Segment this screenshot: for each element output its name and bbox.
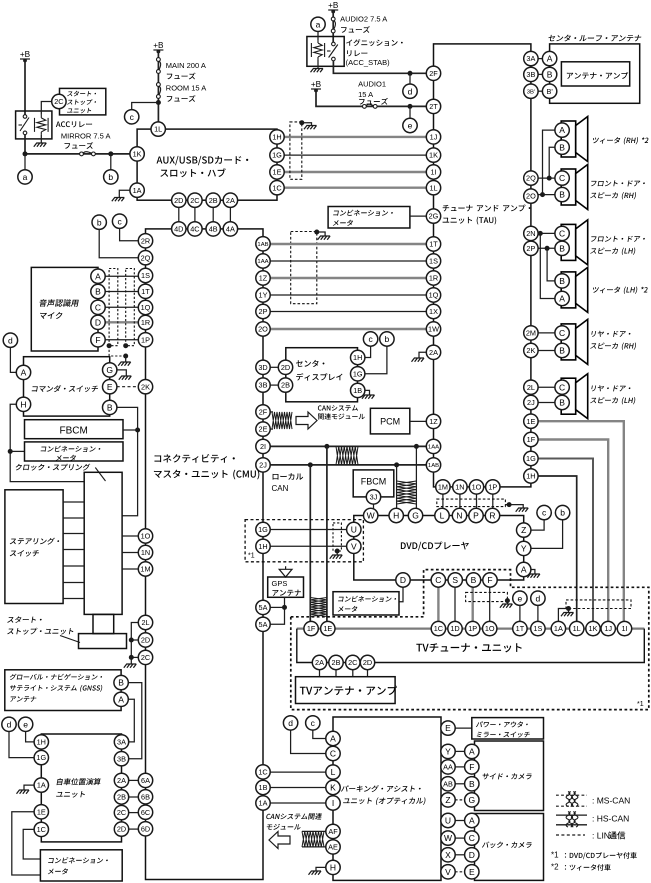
DVD pin Y <box>517 541 531 555</box>
speaker tweeter RH <box>561 117 588 162</box>
ignition relay coil <box>311 40 324 60</box>
svg-text:b: b <box>108 172 113 182</box>
svg-text:G: G <box>468 795 475 805</box>
wire hub 2A to CMU 4A <box>229 207 231 222</box>
svg-text:1R: 1R <box>429 274 438 283</box>
wire nav 2D-6D <box>129 828 139 830</box>
TAU pin 2K <box>524 343 538 357</box>
svg-text:B: B <box>95 287 101 297</box>
wire connector a2 to ignition coil <box>317 32 319 41</box>
ground B/F shield <box>500 604 513 608</box>
wire TV 2B to TV antenna amp <box>335 670 337 677</box>
svg-text:L: L <box>331 767 336 777</box>
wire TAU 2A to ground <box>419 352 427 357</box>
svg-text:Y: Y <box>521 543 527 553</box>
wire connector e2 to TV 1T <box>519 605 521 621</box>
fuse AUDIO1 15A <box>363 104 378 108</box>
svg-text:GPS: GPS <box>272 579 288 588</box>
parking pin I <box>326 796 340 810</box>
junction shield drain (hub wires) <box>299 120 304 125</box>
speaker terminal C <box>555 380 569 394</box>
wire CMU-TAU row 1Y-1Q <box>270 294 427 296</box>
start-stop pointer <box>60 636 80 643</box>
CMU pin 5A <box>256 600 270 614</box>
parking pin AE <box>326 840 340 854</box>
DVD pin N <box>452 508 466 522</box>
TAU pin 2T <box>426 99 440 113</box>
svg-text:2B: 2B <box>332 658 341 667</box>
svg-text:2D: 2D <box>363 658 372 667</box>
svg-text:3B: 3B <box>526 70 535 79</box>
ground DVD shield <box>516 508 529 512</box>
wire connector c5 to parking A <box>313 730 326 739</box>
svg-text:+B: +B <box>153 41 164 50</box>
shield TV right wires <box>566 600 631 609</box>
junction mic shield 1 <box>107 343 112 348</box>
svg-text:1M: 1M <box>140 565 150 574</box>
back camera pin C <box>465 831 479 845</box>
TAU pin 1H <box>524 469 538 483</box>
junction e1 tap <box>408 104 413 109</box>
wire MIRROR fuse run <box>25 153 130 155</box>
connector d (commander) <box>3 333 17 347</box>
TAU pin 1T <box>426 237 440 251</box>
svg-text:FBCM: FBCM <box>361 477 387 487</box>
commander pin E <box>103 380 117 394</box>
wire CMU 1B to parking K <box>270 787 326 789</box>
svg-text:B: B <box>559 346 565 356</box>
svg-text:4C: 4C <box>190 225 199 234</box>
wire connector b2 to CMU 2Q <box>99 229 138 258</box>
junction CAN-L drop to DVD <box>394 462 399 467</box>
hub pin 2B <box>206 193 220 207</box>
CMU pin 1AB <box>256 237 270 251</box>
svg-text:1O: 1O <box>472 483 482 492</box>
wire mic shield drain dashed <box>109 346 126 356</box>
FBCM box (DVD area) <box>353 470 394 497</box>
wire CMU 2F to MS-CAN module <box>270 411 273 413</box>
DVD pin A <box>517 562 531 576</box>
svg-text:2T: 2T <box>429 102 438 111</box>
shield around hub-TAU wires <box>290 122 302 179</box>
wire DVD S to TV 1D <box>454 587 456 622</box>
wire CMU 1A to parking I <box>270 802 326 804</box>
ground commander G <box>119 376 132 380</box>
nav pin 1G <box>34 750 48 764</box>
nav pin 2D <box>114 822 128 836</box>
svg-text:2D: 2D <box>117 825 126 834</box>
wire tweeter LH B <box>547 248 555 281</box>
connector c (display) <box>363 332 377 346</box>
wire TV 2C to TV antenna amp <box>352 670 354 677</box>
svg-text:D: D <box>400 575 406 585</box>
wire hub 1H to TAU 1J <box>284 136 427 138</box>
+B symbol (AUDIO1 feed) <box>311 80 322 93</box>
svg-text:1P: 1P <box>141 335 150 344</box>
wire CAN-H CMU 2I to TAU 1AA <box>270 445 428 447</box>
speaker terminal A <box>555 123 569 137</box>
nav pin 1H <box>34 735 48 749</box>
fuse MIRROR 7.5A <box>80 152 96 156</box>
svg-text:G: G <box>106 365 113 375</box>
FBCM pin 3J <box>366 490 380 504</box>
svg-text:3D: 3D <box>258 363 267 372</box>
svg-text:1G: 1G <box>36 753 46 762</box>
wire B/F shield to ground <box>506 601 508 604</box>
svg-text:A: A <box>469 816 475 826</box>
commander pin H <box>16 397 30 411</box>
combination meter box (bottom left) <box>40 850 122 881</box>
speaker terminal A <box>555 291 569 305</box>
svg-text:1E: 1E <box>323 624 332 633</box>
svg-text:1L: 1L <box>154 125 162 134</box>
svg-text:S: S <box>452 575 458 585</box>
svg-text:3B: 3B <box>259 381 268 390</box>
junction node c tap <box>156 100 161 105</box>
svg-text:F: F <box>469 762 474 772</box>
svg-text:b: b <box>97 217 102 227</box>
parking pin AB <box>441 777 455 791</box>
wire DVD F to TV 1O <box>489 587 491 622</box>
svg-text:5A: 5A <box>259 620 268 629</box>
svg-text:Y: Y <box>445 746 451 756</box>
svg-text:4A: 4A <box>226 225 235 234</box>
connector e (TV) <box>513 591 527 605</box>
parking pin A <box>326 731 340 745</box>
ACC relay coil <box>35 115 49 135</box>
antenna amp box <box>561 62 629 86</box>
wire commander B to clock spring <box>117 407 138 515</box>
svg-text:1M: 1M <box>438 483 448 492</box>
svg-text:1Z: 1Z <box>429 417 438 426</box>
svg-text:B: B <box>559 398 565 408</box>
legend HS-CAN symbol <box>556 815 587 825</box>
svg-text:1G: 1G <box>526 454 536 463</box>
wire TAU 1G to TV 1K <box>538 459 593 622</box>
wire connector e3 to nav 1H <box>26 731 35 742</box>
junction DVD shield drain <box>507 502 512 507</box>
svg-text:6B: 6B <box>141 792 150 801</box>
TAU pin 2P <box>524 241 538 255</box>
option dashed region *1 (TV tuner/DVD) <box>291 570 649 710</box>
nav pin 2C <box>114 805 128 819</box>
wire to combination meter 1 <box>10 450 24 452</box>
svg-text:1L: 1L <box>429 183 437 192</box>
junction +B/a node <box>23 151 28 156</box>
TV pin 1S <box>531 621 545 635</box>
wire shield drain to ground (hub wires) <box>302 123 312 125</box>
ignition relay box (ACC_STAB) <box>307 37 344 67</box>
TAU (tuner and amp unit) box <box>434 44 531 487</box>
svg-text:1A: 1A <box>37 781 46 790</box>
car position unit box <box>41 734 121 842</box>
wire TAU 2N to speaker <box>538 232 555 234</box>
wire DVD Y to connector b3 <box>531 520 563 549</box>
svg-text:E: E <box>445 723 451 733</box>
arrow to CAN system module (left) <box>269 832 290 849</box>
svg-text:1O: 1O <box>141 532 151 541</box>
svg-text:d: d <box>7 719 12 729</box>
TAU pin 1AB <box>426 458 440 472</box>
speaker terminal C <box>555 326 569 340</box>
svg-text:2A: 2A <box>429 348 438 357</box>
svg-text:1E: 1E <box>273 168 282 177</box>
svg-text:c: c <box>542 508 547 518</box>
mic pin A <box>91 269 105 283</box>
TAU pin 2A <box>426 345 440 359</box>
display pin 1B <box>351 383 365 397</box>
wire nav 1A to ground <box>24 785 34 789</box>
wire display 1H to connector c4 <box>365 346 371 358</box>
svg-text:c: c <box>368 334 373 344</box>
svg-text:3B: 3B <box>117 754 126 763</box>
connector c (DVD) <box>537 505 551 519</box>
svg-text:C: C <box>469 833 475 843</box>
wire DVD D to combi meter <box>399 587 403 602</box>
svg-text:d: d <box>408 86 413 96</box>
svg-text:4B: 4B <box>209 225 218 234</box>
commander pin G <box>103 363 117 377</box>
wire parking H to ground <box>316 867 326 870</box>
svg-text:1T: 1T <box>429 240 438 249</box>
commander switch box <box>24 357 110 416</box>
parking pin V <box>441 865 455 879</box>
svg-text:2C: 2C <box>348 658 357 667</box>
mic pin D <box>91 315 105 329</box>
wire commander G to ground <box>117 370 127 376</box>
svg-text:B: B <box>107 402 113 412</box>
svg-text:AA: AA <box>443 763 453 772</box>
wire steering rung 5 <box>63 565 84 567</box>
svg-text:2C: 2C <box>117 808 126 817</box>
parking pin W <box>441 831 455 845</box>
back camera pin A <box>465 813 479 827</box>
wire CAN drop to DVD G <box>415 446 417 508</box>
CMU pin 2D <box>138 633 152 647</box>
junction GPS 5A <box>282 605 287 610</box>
CMU pin 1C <box>256 765 270 779</box>
connector c (mid) <box>112 214 126 228</box>
svg-text:C: C <box>95 302 101 312</box>
svg-text:1A: 1A <box>133 186 142 195</box>
parking pin Z <box>441 793 455 807</box>
CMU pin 3D <box>256 360 270 374</box>
CMU pin 1G <box>256 522 270 536</box>
wire DVD L-1M <box>442 494 444 509</box>
wire CMU 2C to rail <box>131 656 138 658</box>
wire connector c2 to CMU 2R <box>120 228 139 241</box>
svg-text:2J: 2J <box>527 398 535 407</box>
svg-text:2A: 2A <box>226 196 235 205</box>
connector e (top) <box>403 118 417 132</box>
svg-text:1H: 1H <box>353 353 362 362</box>
junction B/F shield drain <box>505 598 510 603</box>
parking pin X <box>441 848 455 862</box>
svg-text:1K: 1K <box>133 150 142 159</box>
svg-text:R: R <box>489 511 495 521</box>
wire TAU 2L to speaker <box>538 386 555 388</box>
connector d (TV) <box>531 591 545 605</box>
svg-text:: MS-CAN: : MS-CAN <box>592 796 630 806</box>
wire CAN drop to DVD H <box>396 465 398 509</box>
side camera pin B <box>465 777 479 791</box>
wire CMU-TAU row 2P-1X <box>270 311 427 313</box>
DVD pin G <box>408 508 422 522</box>
wire hub 1E to TAU 1I <box>284 171 427 173</box>
TAU pin 1F <box>524 432 538 446</box>
shield DVD B/F wires <box>466 592 508 601</box>
svg-text:1L: 1L <box>573 624 581 633</box>
svg-text:1Y: 1Y <box>259 291 268 300</box>
svg-text:1E: 1E <box>37 807 46 816</box>
MS-CAN twisted pair (CMU 2F/2E) <box>272 412 292 429</box>
svg-text:2K: 2K <box>526 346 535 355</box>
svg-text:A: A <box>547 54 553 64</box>
ground shield (CMU-TAU rows) <box>318 236 331 240</box>
svg-text:B: B <box>559 142 565 152</box>
svg-text:B: B <box>469 779 475 789</box>
TV pin 1I <box>617 621 631 635</box>
clock spring pointer <box>95 468 105 482</box>
nav pin 1C <box>34 822 48 836</box>
nav pin 2A <box>114 773 128 787</box>
parking pin U <box>441 813 455 827</box>
center display box <box>286 348 358 402</box>
svg-text:1C: 1C <box>258 768 267 777</box>
wire ACC switch to MIRROR fuse node <box>24 135 26 154</box>
svg-text:U: U <box>351 525 357 535</box>
svg-text:1H: 1H <box>258 542 267 551</box>
svg-text:1O: 1O <box>485 624 495 633</box>
wire nav 2C-6C <box>129 812 139 814</box>
svg-text:2N: 2N <box>526 229 535 238</box>
wire MAIN/ROOM fuse column <box>157 51 159 122</box>
wire ignition coil to ground <box>317 60 319 68</box>
CMU pin 4D <box>172 222 186 236</box>
CMU pin 2E <box>256 422 270 436</box>
start-stop unit box (top) <box>60 88 106 115</box>
back camera pin E <box>465 865 479 879</box>
TAU pin 1M <box>436 480 450 494</box>
wire CMU 3B to display 2B <box>270 384 279 386</box>
svg-text:1AA: 1AA <box>428 445 439 451</box>
wire parking AF to CAN module <box>302 830 326 832</box>
connector c (parking) <box>306 716 320 730</box>
ignition relay switch <box>327 42 338 61</box>
svg-text:*1: *1 <box>637 701 644 708</box>
TV tuner unit box top edge <box>297 627 645 629</box>
wire CAN drop to TV 1E <box>326 446 328 621</box>
CMU pin 6C <box>138 805 152 819</box>
steering switch box <box>5 490 63 604</box>
TAU pin 2G <box>426 209 440 223</box>
nav pin 1A <box>34 778 48 792</box>
svg-text:c: c <box>117 216 122 226</box>
svg-text:2O: 2O <box>258 325 268 334</box>
svg-text:C: C <box>559 328 565 338</box>
wire DVD A to ground <box>531 570 535 574</box>
wire hub 2D to CMU 4D <box>178 207 180 222</box>
junction tweeter RH A tap <box>540 192 545 197</box>
parking pin Y <box>441 744 455 758</box>
svg-text:X: X <box>445 850 451 860</box>
CMU pin 2P <box>256 304 270 318</box>
svg-text:I: I <box>332 798 334 808</box>
wire mic B-1T <box>105 291 139 293</box>
parking pin E <box>441 721 455 735</box>
wire connector d3 to TV 1S <box>537 605 539 621</box>
svg-text:*1: *1 <box>551 851 559 860</box>
TAU pin 1N <box>453 480 467 494</box>
svg-text:5A: 5A <box>259 603 268 612</box>
wire PCM to TAU 1Z <box>410 420 427 422</box>
parking pin C <box>326 746 340 760</box>
CMU pin 1A <box>256 796 270 810</box>
wire U/V shield to ground <box>336 551 338 555</box>
svg-text:AF: AF <box>328 827 338 836</box>
CMU pin 1R <box>138 315 152 329</box>
wire parking AB-B <box>455 783 465 785</box>
wire GNSS A to nav 3A <box>128 699 134 742</box>
TAU pin 1O <box>469 480 483 494</box>
wire hub 1A to ground <box>119 190 130 197</box>
mic pin B <box>91 284 105 298</box>
svg-text:B: B <box>118 678 124 688</box>
svg-text:2R: 2R <box>141 236 150 245</box>
junction b node <box>108 151 113 156</box>
shield CMU-TAU rows <box>291 232 317 304</box>
shield DVD U/V <box>333 523 341 551</box>
GPS antenna symbol <box>279 566 292 577</box>
svg-text:2L: 2L <box>141 618 149 627</box>
TV pin 1C <box>431 621 445 635</box>
wire nav 1E to combi meter <box>12 812 41 875</box>
ground TV shield <box>561 613 574 617</box>
HS-CAN twisted pair (bus) <box>336 446 358 464</box>
svg-text:1T: 1T <box>516 624 525 633</box>
svg-text:B: B <box>547 69 553 79</box>
mic pin F <box>91 333 105 347</box>
CMU pin 1B <box>256 780 270 794</box>
svg-text:2K: 2K <box>141 382 150 391</box>
legend MS-CAN bundle <box>566 792 578 807</box>
svg-text:1C: 1C <box>272 183 281 192</box>
svg-text:AUDIO2 7.5 A: AUDIO2 7.5 A <box>340 15 387 24</box>
svg-text:1N: 1N <box>455 483 464 492</box>
CMU pin 6A <box>138 773 152 787</box>
HS-CAN twisted pair (TV drop) <box>310 598 327 617</box>
svg-text:*2: *2 <box>551 863 559 872</box>
svg-text:+B: +B <box>20 50 31 59</box>
hub pin 1G <box>270 148 284 162</box>
TV pin 1D <box>448 621 462 635</box>
wire GNSS B to nav 3B <box>128 683 142 759</box>
wire to connector b <box>110 154 112 170</box>
svg-text:2A: 2A <box>117 776 126 785</box>
shield DVD top wires <box>437 499 506 507</box>
svg-text:W: W <box>444 833 452 843</box>
svg-text:1W: 1W <box>428 325 439 334</box>
DVD pin L <box>435 508 449 522</box>
junction shield drain (CMU-TAU rows) <box>314 230 319 235</box>
junction tweeter RH B tap <box>547 176 552 181</box>
svg-text:A: A <box>469 746 475 756</box>
DVD pin R <box>485 508 499 522</box>
TV pin 1J <box>601 621 615 635</box>
svg-text:1N: 1N <box>141 548 150 557</box>
svg-text:*1: *1 <box>248 553 255 560</box>
TV pin 2C <box>346 655 360 669</box>
